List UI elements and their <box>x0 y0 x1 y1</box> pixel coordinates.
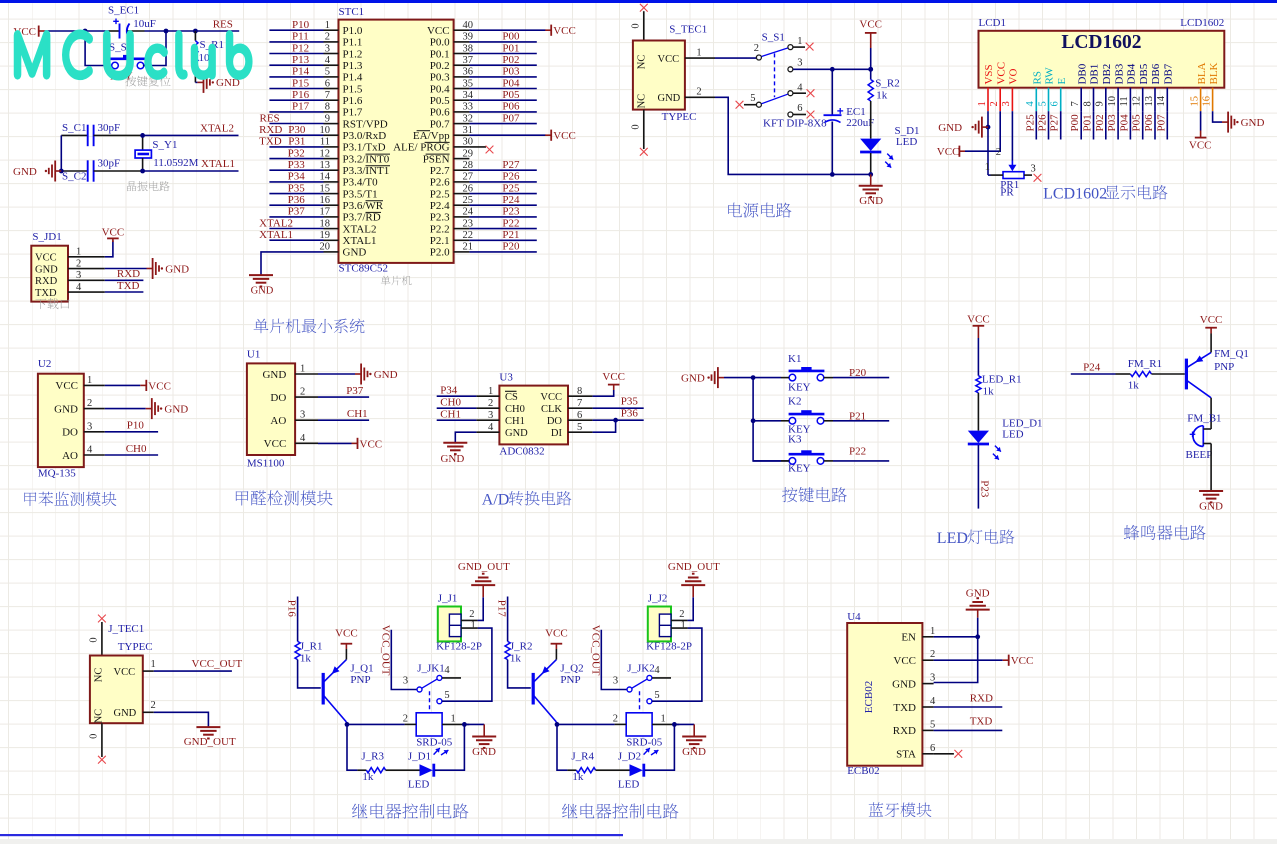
svg-text:GND: GND <box>343 247 367 259</box>
svg-text:LED: LED <box>1002 429 1023 441</box>
wire P06 net <box>469 111 536 113</box>
svg-text:P03: P03 <box>502 66 520 78</box>
LED LED_D1 <box>968 418 1043 460</box>
svg-text:VCC: VCC <box>102 226 125 238</box>
resistor LED_R1 <box>976 373 1022 397</box>
svg-text:P01: P01 <box>1082 114 1094 131</box>
wire J_J1 pin2 to GND_OUT <box>478 597 484 620</box>
wire K1 to P20 <box>824 377 833 379</box>
svg-text:3: 3 <box>1031 164 1036 175</box>
switch J_JK2 <box>613 662 661 713</box>
ground (power circuit) <box>859 174 883 207</box>
svg-text:2: 2 <box>613 713 618 724</box>
pin 2 P1.1 <box>324 32 363 49</box>
wire J_JK2 pin4 <box>652 677 671 679</box>
switch J_JK1 <box>403 662 451 713</box>
svg-text:VCC: VCC <box>264 438 287 450</box>
wire J_TEC1 bottom pin <box>101 723 103 757</box>
svg-text:VCC: VCC <box>114 667 136 678</box>
svg-text:LED: LED <box>408 779 429 791</box>
relay coil SRD-05 <box>613 713 680 749</box>
wire P35 net <box>269 193 323 195</box>
svg-text:VO: VO <box>1008 69 1020 85</box>
svg-text:J_JK1: J_JK1 <box>417 662 445 674</box>
svg-text:36: 36 <box>463 67 474 78</box>
wire P22 net <box>469 228 536 230</box>
wire FM_Q1 collector to buzzer <box>1210 398 1212 429</box>
svg-text:P04: P04 <box>1118 114 1130 132</box>
svg-text:P00: P00 <box>1069 114 1081 132</box>
svg-text:K3: K3 <box>788 434 802 446</box>
svg-text:TXD: TXD <box>259 136 282 148</box>
svg-text:23: 23 <box>463 218 474 229</box>
svg-text:EN: EN <box>901 632 916 644</box>
wire switch pin3 net <box>793 68 871 70</box>
wire P24 to FM_R1 <box>1071 373 1116 375</box>
svg-text:TYPEC: TYPEC <box>118 641 153 653</box>
svg-text:P02: P02 <box>1094 114 1106 131</box>
svg-text:P3.3/INT1: P3.3/INT1 <box>343 165 390 177</box>
svg-text:P2.3: P2.3 <box>430 212 450 224</box>
svg-text:CH1: CH1 <box>347 408 368 420</box>
wire RXD <box>105 279 144 281</box>
wire RES net <box>269 123 323 125</box>
wire VCC_OUT to J_JK1 <box>391 630 417 690</box>
svg-text:P17: P17 <box>292 101 310 113</box>
svg-text:ECB02: ECB02 <box>847 765 879 777</box>
wire RXD net <box>269 134 323 136</box>
svg-text:KF128-2P: KF128-2P <box>646 641 692 653</box>
svg-text:K1: K1 <box>788 353 801 365</box>
wire LED branch up to node <box>645 724 675 770</box>
wire node to relay coil <box>557 723 615 725</box>
svg-text:GND: GND <box>1199 501 1223 513</box>
svg-text:P23: P23 <box>502 206 520 218</box>
node reset-2 <box>164 29 169 34</box>
svg-text:1: 1 <box>471 620 476 631</box>
wire J_JK1 pin4 <box>442 677 461 679</box>
capacitor S_EC1 <box>108 5 156 39</box>
svg-text:PR: PR <box>1000 187 1014 199</box>
wire P11 net <box>269 41 323 43</box>
svg-text:J_R4: J_R4 <box>571 750 594 762</box>
node U4 EN <box>975 634 980 639</box>
wire P16 net <box>297 597 299 642</box>
svg-text:U2: U2 <box>38 358 51 370</box>
LED J_D2 <box>618 748 659 791</box>
svg-text:P21: P21 <box>849 410 866 422</box>
svg-text:3: 3 <box>797 58 802 69</box>
svg-text:P16: P16 <box>285 600 297 618</box>
svg-text:P04: P04 <box>502 77 520 89</box>
wire P17 net <box>507 597 509 642</box>
svg-text:KFT DIP-8X8: KFT DIP-8X8 <box>763 118 827 130</box>
svg-text:32: 32 <box>463 113 474 124</box>
ground GND_OUT (relay 1) <box>458 561 510 597</box>
wire LED to rail <box>870 153 872 174</box>
power port VCC (U1) <box>352 438 383 451</box>
caption 按键复位 <box>125 76 136 86</box>
wire P33 net <box>269 169 323 171</box>
svg-text:P03: P03 <box>1106 114 1118 132</box>
wire K1 left <box>753 377 781 379</box>
no-connect switch pin6 <box>807 111 815 119</box>
pin 9 DB2 <box>1095 64 1113 111</box>
no-connect pot pin3 <box>1034 174 1042 182</box>
svg-text:LED: LED <box>618 779 639 791</box>
svg-text:2: 2 <box>696 87 701 98</box>
svg-text:GND: GND <box>892 678 916 690</box>
svg-text:10: 10 <box>1107 96 1118 107</box>
power port VCC (pin40) <box>545 25 576 37</box>
svg-text:2: 2 <box>989 101 1000 106</box>
svg-text:FM_B1: FM_B1 <box>1187 413 1221 425</box>
svg-text:LCD1: LCD1 <box>979 17 1007 29</box>
no-connect switch pin5 <box>736 101 744 109</box>
svg-text:GND: GND <box>682 746 706 758</box>
wire P17 net <box>269 111 323 113</box>
pin 33 P0.6 <box>430 102 473 119</box>
pin 4 P1.3 <box>324 55 363 72</box>
svg-text:NC: NC <box>637 55 648 70</box>
svg-text:13: 13 <box>1144 96 1155 107</box>
svg-text:3: 3 <box>613 676 618 687</box>
wire J_TEC1 top pin <box>101 622 103 656</box>
wire cap to RES <box>145 30 240 32</box>
wire TXD net <box>269 146 323 148</box>
svg-text:P1.6: P1.6 <box>343 95 363 107</box>
title 继电器控制电路 (1) <box>352 804 367 819</box>
svg-text:PNP: PNP <box>350 674 370 686</box>
svg-text:P37: P37 <box>288 206 306 218</box>
svg-text:P34: P34 <box>440 384 458 396</box>
wire LED_D1 to P23 <box>977 445 979 509</box>
svg-text:VCC: VCC <box>859 18 882 30</box>
svg-text:RS: RS <box>1032 71 1044 84</box>
wire U3 CLK <box>593 407 644 409</box>
svg-text:CH0: CH0 <box>505 404 525 415</box>
power port VCC (buzzer) <box>1200 314 1223 333</box>
wire switch pin1 stub <box>793 46 805 48</box>
terminal block J_J2 KF128-2P <box>646 593 692 653</box>
svg-text:P1.7: P1.7 <box>343 107 363 119</box>
watermark MCUclub <box>15 32 251 79</box>
svg-text:P37: P37 <box>346 385 364 397</box>
ground GND_OUT (relay 2) <box>668 561 720 597</box>
svg-text:VCC: VCC <box>335 628 358 640</box>
svg-text:VSS: VSS <box>983 64 995 84</box>
svg-text:RXD: RXD <box>970 692 993 704</box>
wire VSS to ground <box>987 111 989 175</box>
svg-text:J_Q1: J_Q1 <box>350 662 373 674</box>
svg-text:20: 20 <box>320 242 331 253</box>
svg-text:K2: K2 <box>788 395 801 407</box>
svg-text:GND: GND <box>114 708 137 719</box>
svg-text:P0.2: P0.2 <box>430 60 450 72</box>
wire U2 GND <box>105 408 146 410</box>
pin 16 BLK <box>1201 62 1219 111</box>
svg-text:1: 1 <box>76 247 81 258</box>
svg-text:XTAL1: XTAL1 <box>343 235 377 247</box>
svg-text:RST/VPD: RST/VPD <box>343 118 388 130</box>
svg-text:P10: P10 <box>127 420 145 432</box>
svg-text:P2.4: P2.4 <box>430 200 450 212</box>
wire K3 left <box>753 460 781 462</box>
svg-text:P06: P06 <box>502 101 520 113</box>
power port VCC (S_R2) <box>859 18 882 48</box>
svg-text:P07: P07 <box>502 112 520 124</box>
node DI-P36 <box>613 418 618 423</box>
svg-text:15: 15 <box>320 183 331 194</box>
svg-text:P2.0: P2.0 <box>430 247 450 259</box>
svg-text:VCC: VCC <box>937 146 960 158</box>
svg-text:5: 5 <box>444 690 449 701</box>
wire U3 DI <box>593 420 616 432</box>
svg-text:12: 12 <box>320 148 331 159</box>
svg-text:LED: LED <box>937 530 968 547</box>
svg-text:4: 4 <box>930 696 936 707</box>
pin 4 RS <box>1025 71 1043 111</box>
wire S_JD1 VCC <box>105 241 113 257</box>
svg-text:S_TEC1: S_TEC1 <box>669 23 707 35</box>
wire P03 net <box>469 76 536 78</box>
svg-text:P26: P26 <box>502 171 520 183</box>
wire U4 gnd rail vertical <box>934 618 978 683</box>
svg-text:4: 4 <box>325 55 331 66</box>
svg-text:P0.5: P0.5 <box>430 95 450 107</box>
svg-text:4: 4 <box>76 282 82 293</box>
caption 下载口 <box>35 299 46 310</box>
svg-text:EC1: EC1 <box>846 106 866 118</box>
svg-text:8: 8 <box>1082 101 1093 106</box>
svg-text:AO: AO <box>62 450 78 462</box>
wire P14 net <box>269 76 323 78</box>
wire GND_OUT <box>154 712 209 727</box>
svg-text:DB7: DB7 <box>1163 63 1175 84</box>
svg-text:P13: P13 <box>292 54 310 66</box>
svg-text:7: 7 <box>325 90 330 101</box>
svg-text:LED: LED <box>896 136 917 148</box>
wire keys gnd rail <box>724 377 753 379</box>
svg-text:P32: P32 <box>288 147 305 159</box>
node pin3-VCC rail <box>868 67 873 72</box>
svg-text:P0.0: P0.0 <box>430 37 450 49</box>
svg-text:VCC: VCC <box>55 380 78 392</box>
svg-text:GND_OUT: GND_OUT <box>668 561 720 573</box>
svg-text:DO: DO <box>62 427 78 439</box>
svg-text:RES: RES <box>260 112 280 124</box>
title 甲苯监测模块 <box>24 492 36 506</box>
svg-text:VCC: VCC <box>893 655 916 667</box>
svg-text:P2.5: P2.5 <box>430 188 450 200</box>
transistor J_Q2 PNP <box>533 660 583 722</box>
pin 29 PSEN <box>423 148 473 165</box>
svg-text:P3.1/TxD: P3.1/TxD <box>343 142 386 154</box>
resistor J_R2 <box>505 641 533 665</box>
svg-text:PNP: PNP <box>560 674 580 686</box>
svg-text:GND: GND <box>1241 117 1265 129</box>
title 蜂鸣器电路 <box>1124 525 1139 540</box>
potentiometer PR1 <box>985 147 1036 199</box>
wire P02 net <box>469 64 536 66</box>
power port VCC (pin31) <box>545 130 576 143</box>
pin 8 DB1 <box>1082 64 1100 111</box>
svg-text:2: 2 <box>403 713 408 724</box>
wire VCC to RES net <box>45 30 109 32</box>
wire U1 VCC <box>318 442 352 444</box>
svg-text:P05: P05 <box>1131 114 1143 132</box>
wire VCC to LED_R1 <box>977 338 979 376</box>
power port VCC (U3) <box>602 371 625 390</box>
wire keys vertical rail <box>753 378 790 461</box>
wire P34 net <box>269 181 323 183</box>
svg-text:DB0: DB0 <box>1076 63 1088 84</box>
push button K3 <box>788 434 824 475</box>
svg-text:J_Q2: J_Q2 <box>560 662 583 674</box>
IC STC1 STC89C52 body <box>339 6 454 275</box>
svg-text:GND_OUT: GND_OUT <box>184 736 236 748</box>
node relay right <box>672 722 677 727</box>
svg-text:33: 33 <box>463 102 474 113</box>
svg-text:VCC: VCC <box>995 62 1007 85</box>
svg-text:4: 4 <box>87 445 93 456</box>
svg-text:11.0592M: 11.0592M <box>153 157 198 169</box>
wire collector node <box>555 722 558 724</box>
wire XTAL2 net <box>143 134 239 136</box>
no-connect S_TEC1 top <box>640 4 648 12</box>
svg-text:30: 30 <box>463 137 474 148</box>
push button S_S2 <box>109 41 145 82</box>
pin 39 P0.0 <box>430 32 473 49</box>
svg-text:S_S1: S_S1 <box>762 32 785 44</box>
IC U3 ADC0832 body <box>476 371 592 457</box>
wire resistor to ground <box>195 81 197 83</box>
svg-text:7: 7 <box>1070 101 1081 106</box>
svg-text:TXD: TXD <box>893 702 916 714</box>
svg-text:9: 9 <box>325 113 330 124</box>
svg-text:J_D2: J_D2 <box>618 750 641 762</box>
wire LED_R1 to LED_D1 <box>977 393 979 431</box>
pin 13 P3.3/INT1 <box>320 160 391 177</box>
svg-text:AO: AO <box>270 415 286 427</box>
svg-text:S_Y1: S_Y1 <box>152 139 177 151</box>
wire P10 net <box>269 29 323 31</box>
svg-text:P2.1: P2.1 <box>430 235 450 247</box>
svg-text:BLA: BLA <box>1196 62 1208 84</box>
svg-text:VCC: VCC <box>1200 314 1223 326</box>
svg-text:P33: P33 <box>288 159 306 171</box>
svg-text:P11: P11 <box>292 31 309 43</box>
svg-text:STA: STA <box>896 749 916 761</box>
title 蓝牙模块 <box>869 802 884 816</box>
sheet border top <box>0 0 1277 3</box>
svg-text:3: 3 <box>488 410 493 421</box>
svg-text:0: 0 <box>631 124 642 129</box>
svg-text:P1.1: P1.1 <box>343 37 363 49</box>
no-connect J_TEC1 top <box>98 615 106 623</box>
title 电源电路 <box>728 203 742 218</box>
pin 34 P0.5 <box>430 90 474 107</box>
svg-text:GND_OUT: GND_OUT <box>458 561 510 573</box>
wire VCC_OUT <box>154 670 232 672</box>
svg-text:26: 26 <box>463 183 474 194</box>
wire P16 net <box>269 99 323 101</box>
pin 11 DB4 <box>1119 63 1137 111</box>
capacitor S_C1 <box>61 122 142 146</box>
title 继电器控制电路 (2) <box>562 804 577 819</box>
svg-text:CLK: CLK <box>541 404 562 415</box>
svg-text:BLK: BLK <box>1208 62 1220 84</box>
svg-text:NC: NC <box>637 94 648 109</box>
power port VCC (S_JD1) <box>102 226 125 242</box>
node crystal-gnd <box>59 169 64 174</box>
svg-text:LCD1602: LCD1602 <box>1061 32 1141 53</box>
svg-text:2: 2 <box>469 609 474 620</box>
pin 20 GND <box>320 242 367 259</box>
svg-text:P35: P35 <box>288 182 306 194</box>
svg-text:P16: P16 <box>292 89 310 101</box>
power port VCC (LED) <box>967 313 990 338</box>
wire P26 net <box>469 181 536 183</box>
svg-text:VCC: VCC <box>148 380 171 392</box>
svg-text:31: 31 <box>463 125 474 136</box>
ground (relay 1) <box>472 724 496 758</box>
svg-text:TXD: TXD <box>970 716 993 728</box>
wire S_JD1 GND <box>105 268 147 270</box>
svg-text:NC: NC <box>94 668 105 683</box>
wire U2 DO <box>105 431 158 433</box>
power port VCC (U2) <box>140 380 171 393</box>
svg-text:1: 1 <box>488 386 493 397</box>
ground (LCD) <box>938 117 988 138</box>
pin 6 E <box>1050 78 1068 112</box>
svg-text:0: 0 <box>89 637 100 642</box>
svg-text:FM_R1: FM_R1 <box>1128 358 1162 370</box>
wire P05 net <box>469 99 536 101</box>
svg-text:4: 4 <box>300 433 306 444</box>
svg-text:34: 34 <box>463 90 474 101</box>
svg-text:MS1100: MS1100 <box>247 457 285 469</box>
caption 晶振电路 <box>127 181 136 191</box>
wire U3 DO <box>593 419 644 421</box>
wire relay to ground <box>674 723 694 725</box>
wire switch pin5 stub <box>744 104 756 106</box>
svg-text:2: 2 <box>930 649 935 660</box>
wire S_R2 to LED <box>870 101 872 139</box>
pin 24 P2.3 <box>430 207 474 224</box>
svg-text:1: 1 <box>696 48 701 59</box>
transistor J_Q1 PNP <box>323 660 373 722</box>
wire P02 net <box>1105 111 1107 139</box>
wire P23 net <box>469 216 536 218</box>
svg-text:16: 16 <box>320 195 331 206</box>
svg-text:10: 10 <box>320 125 331 136</box>
wire S_TEC1 bottom pin <box>643 110 645 149</box>
resistor S_R1 <box>193 31 224 82</box>
no-connect J_TEC1 bottom <box>98 756 106 764</box>
svg-text:1: 1 <box>300 364 305 375</box>
wire U4 VCC <box>934 659 1003 661</box>
svg-text:KEY: KEY <box>788 381 811 393</box>
svg-text:ALE/ PROG: ALE/ PROG <box>393 142 450 154</box>
wire P37 net <box>269 216 323 218</box>
wire P20 net <box>469 251 536 253</box>
svg-text:P1.5: P1.5 <box>343 83 363 95</box>
pin 17 P3.7/RD <box>320 207 382 224</box>
wire node down to LED branch <box>557 724 567 770</box>
svg-text:P1.2: P1.2 <box>343 48 363 60</box>
svg-text:10uF: 10uF <box>133 18 156 30</box>
